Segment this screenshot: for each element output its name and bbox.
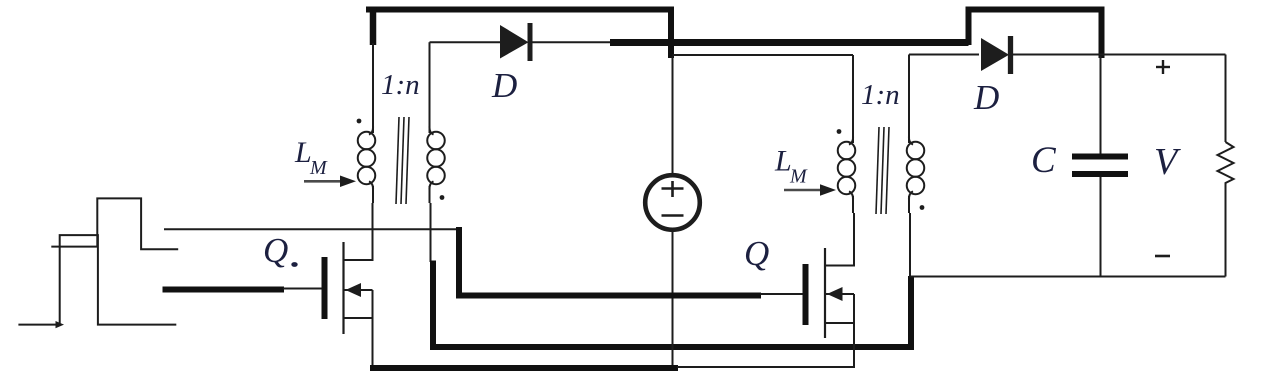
gate bar xyxy=(803,264,809,325)
source branch xyxy=(825,322,854,324)
label - (output) xyxy=(1155,255,1170,258)
wire: T2 primary top lead xyxy=(852,55,854,143)
transistor Q2 (MOSFET) xyxy=(806,213,855,367)
diode D1 xyxy=(500,25,529,59)
body branch with arrow xyxy=(344,289,373,291)
wire: T1 secondary bottom lead xyxy=(430,203,432,262)
wire: thin gate lead Q2 xyxy=(760,293,803,295)
diode D2 xyxy=(981,38,1009,71)
svg-text:V: V xyxy=(1154,141,1181,183)
resistor load xyxy=(1218,55,1234,277)
wire: output bottom xyxy=(909,276,1226,278)
voltage source VS xyxy=(645,56,700,368)
dot: T2 secondary polarity xyxy=(920,205,925,210)
svg-text:M: M xyxy=(309,157,328,179)
svg-text:M: M xyxy=(789,166,808,188)
wire: output top wire xyxy=(1011,54,1226,56)
transistor Q1 (MOSFET) xyxy=(325,203,373,368)
lower pulse waveform xyxy=(18,235,176,325)
svg-text:C: C xyxy=(1031,140,1057,181)
wire: thin gate lead Q1 xyxy=(283,288,322,290)
transformer T1 primary winding xyxy=(358,126,376,203)
drain branch xyxy=(344,203,373,260)
svg-text:D: D xyxy=(973,78,999,117)
dot: T2 primary polarity xyxy=(837,129,842,134)
thick top bus (left) xyxy=(366,7,671,13)
source branch xyxy=(344,317,373,319)
capacitor C xyxy=(1072,56,1128,277)
drain branch xyxy=(825,213,854,266)
wire: diode D1 cathode wire xyxy=(531,41,612,43)
wire: thin bottom return to Q2 source xyxy=(677,366,855,368)
arrow LM (T2) xyxy=(784,189,822,192)
body branch with arrow xyxy=(825,293,854,295)
thick gate wire to Q1 xyxy=(163,287,285,293)
source/body vertical down to bottom bus xyxy=(372,290,374,368)
source/body vertical xyxy=(853,294,855,367)
dot: T1 primary polarity xyxy=(357,119,362,124)
wire: upper gate-drive line from pulse to node xyxy=(164,228,457,230)
transformer T2 secondary winding xyxy=(907,55,925,214)
gate bar xyxy=(322,257,328,319)
transformer T1 core xyxy=(396,117,409,204)
wire: diode D2 anode wire xyxy=(909,54,979,56)
thick return path A xyxy=(433,261,911,348)
arrow LM (T1) xyxy=(304,180,342,183)
channel line xyxy=(824,248,826,338)
transformer T1 secondary winding xyxy=(427,42,445,203)
thick bus middle to right xyxy=(610,39,969,46)
wire: diode D1 anode wire xyxy=(430,41,501,43)
upper pulse waveform xyxy=(51,198,178,249)
svg-text:1:n: 1:n xyxy=(381,69,420,101)
thick bottom bus (Q1 source to VS) xyxy=(370,365,678,371)
transformer T2 core xyxy=(876,127,889,214)
thick gate path B to Q2 xyxy=(459,227,761,296)
svg-text:Q: Q xyxy=(263,231,288,270)
svg-text:Q: Q xyxy=(744,234,769,273)
wire: T2 secondary bottom lead xyxy=(909,213,911,277)
wire: node to T2 primary top xyxy=(673,54,854,56)
label + (output) xyxy=(1156,60,1170,74)
arrowhead on lower pulse baseline xyxy=(56,321,65,328)
wire: T1 primary top lead xyxy=(372,43,374,133)
transformer T2 primary winding xyxy=(838,136,856,213)
channel line xyxy=(342,242,344,334)
svg-text:1:n: 1:n xyxy=(861,79,900,111)
dot: T1 secondary polarity xyxy=(440,195,445,200)
svg-text:D: D xyxy=(491,66,517,105)
